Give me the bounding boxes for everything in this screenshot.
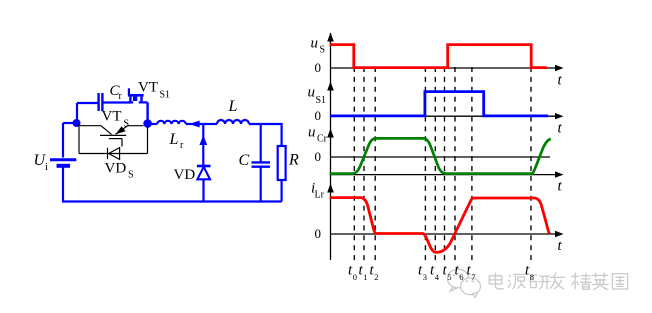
- battery U_i plates: [50, 158, 76, 161]
- svg-text:i: i: [45, 161, 48, 173]
- svg-text:S: S: [320, 45, 326, 56]
- svg-text:Cr: Cr: [317, 134, 328, 145]
- svg-text:Lr: Lr: [315, 190, 325, 201]
- arrowhead on wire (current direction, pointing left): [189, 121, 199, 128]
- svg-text:VT: VT: [138, 80, 158, 96]
- inductor L_r: [157, 121, 186, 124]
- i_Lr waveform (red): [330, 198, 550, 253]
- 英: [592, 273, 608, 278]
- black loop rectangle for VT_S / VD_S: [79, 126, 148, 154]
- svg-text:u: u: [308, 85, 316, 101]
- u_S time axis: [331, 67, 556, 69]
- 发: [550, 273, 565, 289]
- wire: L to top-right corner and down to R: [249, 124, 282, 146]
- svg-text:7: 7: [471, 272, 475, 282]
- svg-text:VD: VD: [174, 167, 196, 183]
- svg-text:1: 1: [363, 272, 367, 282]
- 电: [496, 273, 504, 289]
- u_S1 waveform (blue): [330, 92, 548, 116]
- svg-text:8: 8: [530, 272, 534, 282]
- u_Cr time axis: [331, 174, 556, 176]
- wire: left node up to top branch: [76, 103, 78, 123]
- dashed timing lines t0..t8: [354, 67, 531, 262]
- svg-text:S: S: [128, 170, 134, 181]
- svg-text:R: R: [288, 152, 299, 169]
- 研: [529, 275, 537, 287]
- svg-text:0: 0: [315, 226, 322, 241]
- svg-text:5: 5: [447, 272, 451, 282]
- arrowhead up on VD branch: [199, 135, 207, 145]
- svg-text:S: S: [124, 119, 130, 130]
- diode VD: [197, 165, 211, 168]
- logo: chat bubbles: [448, 269, 481, 297]
- node B (right junction): [143, 119, 152, 128]
- wire: Lr to VD junction: [186, 123, 204, 125]
- wire: left node to top-left corner: [63, 122, 77, 124]
- svg-text:S1: S1: [160, 90, 171, 101]
- wire: left vertical down to battery: [62, 123, 64, 158]
- 圈: [612, 274, 627, 289]
- u_Cr zero line: [331, 156, 551, 158]
- watermark text 电源研发精英圈 (vector approx): [489, 273, 627, 290]
- 精: [571, 273, 579, 290]
- node A (left junction): [73, 119, 81, 127]
- svg-text:L: L: [169, 131, 179, 148]
- svg-text:S1: S1: [316, 95, 327, 106]
- wire: top branch to Cr: [77, 102, 98, 104]
- svg-text:C: C: [239, 152, 250, 169]
- svg-text:2: 2: [374, 272, 378, 282]
- transistor VT_S (black IGBT): [77, 126, 144, 147]
- capacitor C plates: [252, 162, 271, 166]
- svg-text:VD: VD: [105, 161, 127, 177]
- svg-text:0: 0: [353, 272, 357, 282]
- wire: R bottom to rail: [281, 180, 283, 202]
- inductor L: [217, 120, 249, 124]
- wire: C branch top: [260, 124, 262, 162]
- svg-text:u: u: [311, 36, 319, 52]
- svg-text:0: 0: [315, 108, 322, 123]
- diode VD_S: [108, 148, 120, 160]
- u_S1 time axis: [331, 115, 556, 117]
- wire: C branch bottom: [260, 167, 262, 202]
- capacitor Cr plates: [99, 93, 103, 111]
- svg-text:VT: VT: [102, 109, 122, 125]
- wire: VD anode down to bottom rail: [202, 179, 204, 202]
- svg-text:0: 0: [315, 149, 322, 164]
- u_Cr waveform (green): [330, 138, 551, 173]
- resistor R box: [278, 146, 286, 180]
- common vertical axis: [330, 33, 332, 260]
- axis arrows up: [327, 33, 334, 42]
- wire: bottom rail: [62, 200, 282, 202]
- wire: VD junction to L: [203, 123, 217, 125]
- u_S waveform (red): [330, 45, 548, 68]
- transistor VT_S1 (MOSFET): [128, 88, 148, 120]
- svg-text:L: L: [228, 98, 238, 115]
- svg-text:6: 6: [459, 272, 463, 282]
- wire: right node to Lr: [148, 123, 158, 125]
- svg-text:4: 4: [435, 272, 440, 282]
- svg-text:3: 3: [423, 272, 427, 282]
- wire: battery bottom to bottom rail: [62, 166, 64, 202]
- 源: [508, 275, 511, 288]
- wire: Cr to VTS1 source: [103, 101, 131, 103]
- svg-text:u: u: [308, 125, 316, 141]
- i_Lr time axis: [331, 233, 556, 235]
- svg-text:0: 0: [315, 60, 322, 75]
- wire: VD branch vertical: [202, 124, 204, 165]
